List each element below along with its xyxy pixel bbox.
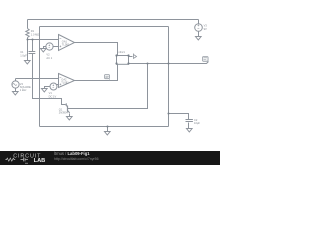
ground under Q1 <box>67 117 73 121</box>
svg-text:1 kHz: 1 kHz <box>20 88 27 92</box>
ground on bottom rail <box>105 132 111 136</box>
voltage source V2 <box>46 43 53 50</box>
box U1 <box>117 56 129 65</box>
junction at C2 branch <box>168 113 170 115</box>
voltage source V1 <box>50 83 57 90</box>
wire bottom rail <box>40 126 169 128</box>
wire C2 branch <box>169 114 189 120</box>
wire V1 to OA2 <box>57 84 59 86</box>
svg-text:TL081: TL081 <box>62 43 70 47</box>
ground under V3 <box>196 37 202 41</box>
wire V2 to OA1 <box>53 46 59 48</box>
wire OA1 input horizontal <box>28 39 59 41</box>
wire C1 branch down <box>32 40 34 52</box>
transistor Q1 <box>67 106 69 112</box>
ground at V2 <box>41 49 47 53</box>
junction node A at x=147.6 on output net <box>147 63 149 65</box>
op-amp OA1 <box>59 35 75 51</box>
svg-text:C1: C1 <box>20 50 24 54</box>
wire V3 ground stub <box>198 32 200 37</box>
voltage source V3 <box>195 24 203 32</box>
flag output pin <box>134 54 137 59</box>
wire C2 to ground <box>188 123 190 129</box>
svg-text:TL081: TL081 <box>61 81 69 85</box>
wire V2 ground stub <box>44 47 46 49</box>
ground under C2 <box>187 129 193 133</box>
svg-text:xfmr1: xfmr1 <box>118 50 125 54</box>
wire V4 to OA2 <box>16 78 59 80</box>
svg-text:1.0 MΩ: 1.0 MΩ <box>31 33 39 37</box>
bar caption text <box>54 152 90 156</box>
svg-text:AC 1: AC 1 <box>46 56 52 60</box>
wire box lower output <box>129 62 209 64</box>
pin 1 box U1 top-left <box>115 54 117 56</box>
wire C1 down and over to Q1 <box>33 54 66 105</box>
wire line C vertical <box>39 27 41 127</box>
svg-text:R1: R1 <box>31 29 35 33</box>
pin 2 box U1 top-right <box>127 54 129 56</box>
CircuitLab logo <box>0 151 50 165</box>
wire OA2 output up to box <box>75 65 118 81</box>
ground at V1 <box>42 89 48 93</box>
svg-text:10µF: 10µF <box>194 121 200 125</box>
resistor R1 <box>26 29 29 38</box>
wire V4 ground stub <box>15 89 17 92</box>
svg-text:9V: 9V <box>204 27 207 31</box>
schematic canvas <box>0 0 220 165</box>
capacitor C1 <box>29 52 36 54</box>
wire R1 line down to ground <box>27 40 29 61</box>
wire R1 bottom to input line <box>27 38 29 40</box>
pin 3 box U1 bottom-left <box>115 62 117 64</box>
wire R1 top stub <box>27 20 29 29</box>
wire OA1 output <box>75 43 118 56</box>
ground under R1 line <box>25 61 31 65</box>
wire V4 top stub <box>15 79 17 82</box>
svg-text:DC 1V: DC 1V <box>49 94 57 98</box>
junction at R1 / input wire <box>27 39 29 41</box>
junction node B at right vertical on output net <box>168 63 170 65</box>
junction at C1 branch <box>32 39 34 41</box>
svg-text:LAB: LAB <box>34 158 46 164</box>
wire inner rail top <box>40 26 169 28</box>
wire top outer rail <box>28 19 199 21</box>
wire V1 ground stub <box>45 87 50 89</box>
wire right vertical <box>168 27 170 127</box>
capacitor C2 <box>186 120 193 122</box>
wire box to flag <box>129 56 133 58</box>
wire bottom rail ground stub <box>107 127 109 132</box>
wire node to Q1 base <box>68 64 148 109</box>
svg-text:1.0µF: 1.0µF <box>20 53 27 57</box>
svg-text:2N3904: 2N3904 <box>59 111 69 115</box>
junction at bottom rail ground <box>107 126 109 128</box>
tag label right <box>203 57 209 62</box>
bottom brand bar <box>0 151 220 165</box>
junction dots <box>27 39 170 128</box>
voltage source V4 <box>12 81 19 88</box>
wire V3 top stub <box>198 20 200 24</box>
component labels <box>20 24 208 126</box>
tag above OA2 output <box>105 75 110 79</box>
op-amp OA2 <box>59 74 75 88</box>
ground under V4 <box>13 92 19 96</box>
pin 4 box U1 bottom-right <box>127 62 129 64</box>
